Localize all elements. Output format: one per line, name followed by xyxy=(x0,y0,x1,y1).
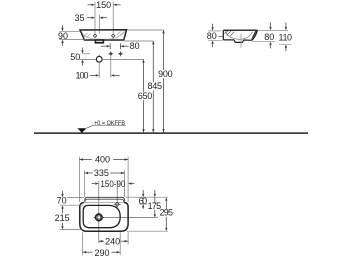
plan view inner bowl xyxy=(83,205,120,227)
extension line 335 right xyxy=(124,170,126,197)
side view hatch left xyxy=(225,31,235,36)
dimension 900 vertical xyxy=(127,29,164,31)
dimension 845 vertical xyxy=(124,40,153,42)
front view interior bowl curve xyxy=(82,31,126,39)
svg-text:845: 845 xyxy=(148,81,163,91)
dimension 50 (front view) xyxy=(82,48,84,51)
dimension 295 (plan right) xyxy=(165,197,167,200)
dimension 175 (plan right) xyxy=(154,190,156,194)
extension line 335 left xyxy=(84,170,86,197)
plan view back ledge top edge xyxy=(85,197,125,202)
dimension 650 vertical xyxy=(143,59,145,91)
svg-text:650: 650 xyxy=(138,91,153,101)
extension line tap hole right (x=113.2) xyxy=(112,2,114,37)
left extension lines xyxy=(67,196,85,198)
plan view outer outline xyxy=(80,203,128,232)
dimension 150 (front view top) xyxy=(88,4,121,6)
90 extension line bottom xyxy=(60,39,86,41)
plan view tap hole symbol xyxy=(115,202,119,206)
dimension 150-90 xyxy=(92,183,96,185)
front view drain circle xyxy=(98,55,100,56)
svg-text:35: 35 xyxy=(74,13,84,23)
dimension 60 (plan right) xyxy=(142,190,144,194)
plan view back ledge front edge xyxy=(85,199,124,202)
80 right bottom extension xyxy=(252,40,275,42)
side view hatched right rim xyxy=(251,31,257,40)
right extension line bottom xyxy=(127,230,168,232)
svg-text:80: 80 xyxy=(264,32,274,42)
drain level line left xyxy=(79,58,96,60)
dimension 335 xyxy=(85,172,93,174)
front view hatch strokes left xyxy=(84,33,90,38)
wall fixing hole left xyxy=(109,52,113,56)
extension line 35-offset (x=99.3) xyxy=(98,15,100,34)
side view bowl curve xyxy=(225,31,252,39)
plan view outline top edge (faint) xyxy=(82,201,126,203)
svg-text:240: 240 xyxy=(105,237,120,247)
floor line xyxy=(34,132,308,134)
extension line bowl right down xyxy=(119,232,121,255)
side view top extension line right xyxy=(258,29,288,31)
dimension 240 xyxy=(99,240,104,242)
110 bottom extension xyxy=(279,43,292,45)
dimension 80 (side view left) xyxy=(212,24,214,28)
svg-text:150: 150 xyxy=(96,0,111,10)
vertical centerline through drain xyxy=(98,181,100,243)
dimension 90 (front view left) xyxy=(62,25,64,28)
front view tap hole marker right xyxy=(112,34,115,37)
svg-text:50: 50 xyxy=(70,52,80,62)
svg-text:215: 215 xyxy=(55,213,70,223)
side view bottom edge with trap xyxy=(223,40,252,43)
plan view drain symbol xyxy=(96,214,103,221)
svg-text:80: 80 xyxy=(207,31,217,41)
side view right edge xyxy=(252,30,258,40)
side view top edge xyxy=(223,29,257,31)
washbasin front view outline xyxy=(80,30,127,40)
svg-text:110: 110 xyxy=(279,32,293,42)
right extension line top (back edge) xyxy=(126,196,168,198)
dimension 80 (front view, wall holes) xyxy=(109,43,111,49)
datum leader line xyxy=(86,125,125,128)
horizontal centerline through drain xyxy=(96,216,158,218)
floor datum triangle xyxy=(77,128,86,133)
svg-text:100: 100 xyxy=(76,70,89,80)
side view back edge xyxy=(222,30,224,40)
svg-text:+0 = OKFFB: +0 = OKFFB xyxy=(94,120,125,127)
svg-text:80: 80 xyxy=(130,41,140,51)
svg-text:900: 900 xyxy=(158,69,173,79)
svg-text:400: 400 xyxy=(95,155,110,165)
dimension 35 (front view) xyxy=(87,17,107,19)
extension line 400 left xyxy=(79,157,81,202)
wall hole extension line down xyxy=(110,57,112,78)
dimension 400 xyxy=(80,159,92,161)
dimension 70 (plan left) xyxy=(62,191,64,194)
dimension 80 (side view right) xyxy=(270,22,272,26)
dimension 110 (side view) xyxy=(285,22,287,26)
tap hole vertical line xyxy=(116,181,118,208)
side view trap centerline xyxy=(240,34,242,48)
svg-text:335: 335 xyxy=(94,168,109,178)
extension line 400 right xyxy=(127,157,129,202)
extension line bowl left down xyxy=(82,232,84,255)
svg-text:290: 290 xyxy=(94,248,109,258)
svg-text:295: 295 xyxy=(160,208,174,218)
50 extension line top xyxy=(83,53,91,55)
dimension 290 xyxy=(83,251,93,253)
front view tap hole marker left xyxy=(93,34,96,37)
front view hatch strokes right xyxy=(117,32,123,37)
dimension 215 (plan left) xyxy=(61,205,63,208)
drain level line right to 650 xyxy=(102,58,143,60)
extension line tap hole left (x=95) xyxy=(94,2,96,37)
90 extension line top xyxy=(60,30,81,32)
dimension 100 (front view) xyxy=(90,74,96,76)
wall fixing hole right xyxy=(119,52,123,56)
extension line outline right down xyxy=(127,232,129,244)
svg-text:70: 70 xyxy=(57,196,67,206)
svg-text:150-90: 150-90 xyxy=(100,179,125,189)
front view drain notch xyxy=(95,40,103,43)
